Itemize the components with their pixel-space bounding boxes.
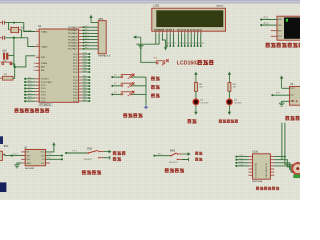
virtual terminal instrument bbox=[277, 16, 301, 40]
svg-text:P1.7: P1.7 bbox=[28, 100, 32, 102]
power VCC arrow (LED D1) bbox=[195, 74, 197, 83]
wire VCC to U2 bbox=[46, 146, 54, 152]
wire K1 to bus bbox=[132, 76, 146, 78]
svg-text:DQ: DQ bbox=[290, 94, 293, 96]
svg-text:P0.0: P0.0 bbox=[85, 26, 89, 28]
svg-text:P0.5: P0.5 bbox=[85, 41, 89, 43]
wire P3.7 to U3 bbox=[272, 94, 274, 96]
pin XTAL1 (19) bbox=[35, 31, 39, 33]
svg-text:XTAL1: XTAL1 bbox=[41, 30, 48, 33]
wire button bus bbox=[145, 77, 147, 105]
node reset junction bbox=[14, 66, 16, 68]
stepper motor bbox=[292, 163, 303, 174]
lcd screen bbox=[157, 11, 223, 27]
svg-text:P1.1/T2EX: P1.1/T2EX bbox=[41, 82, 52, 84]
wire VCC to U3 bbox=[282, 87, 290, 89]
svg-text:SW-SPDT: SW-SPDT bbox=[84, 159, 94, 161]
wire junction down to reset node bbox=[13, 38, 15, 51]
svg-text:P0.6: P0.6 bbox=[85, 44, 89, 46]
wire C3 to reset node bbox=[8, 54, 14, 56]
svg-text:P1.1: P1.1 bbox=[72, 151, 77, 153]
capacitor C1 bbox=[0, 22, 2, 24]
wire P1.2 to SW2 bbox=[154, 155, 156, 157]
svg-text:D6: D6 bbox=[196, 29, 198, 31]
svg-text:P2.3: P2.3 bbox=[240, 165, 244, 167]
net label 温湿度检测 bbox=[285, 116, 289, 120]
wire K2 to bus bbox=[132, 85, 146, 87]
svg-text:LCD1: LCD1 bbox=[153, 5, 160, 8]
wire U2 GND bbox=[17, 163, 21, 165]
svg-text:P2.5: P2.5 bbox=[83, 68, 87, 70]
svg-text:P0.7: P0.7 bbox=[85, 48, 89, 50]
svg-text:P0.2/AD2: P0.2/AD2 bbox=[68, 32, 78, 35]
svg-text:P0.6/AD6: P0.6/AD6 bbox=[68, 45, 78, 48]
power VCC arrow (LED D2) bbox=[228, 74, 230, 83]
led D1 LED-RED bbox=[193, 99, 199, 105]
led D2 LED-RED bbox=[227, 99, 233, 105]
terminal bar 烟雾 bbox=[104, 156, 110, 160]
svg-text:P0: P0 bbox=[167, 43, 169, 45]
svg-text:CLK: CLK bbox=[41, 155, 46, 157]
wire P3.0 to terminal bbox=[260, 24, 262, 26]
svg-text:P2.2: P2.2 bbox=[83, 59, 87, 61]
net label 音乐指示灯 bbox=[219, 119, 222, 122]
uln right pins bbox=[270, 156, 274, 158]
svg-text:P3.5: P3.5 bbox=[73, 95, 78, 97]
wire uln out 2 bbox=[274, 160, 292, 167]
svg-text:P3.2: P3.2 bbox=[83, 85, 87, 87]
svg-text:P1.3: P1.3 bbox=[28, 87, 32, 89]
svg-text:LCD1602: LCD1602 bbox=[177, 61, 199, 67]
svg-text:P1.4: P1.4 bbox=[41, 91, 46, 93]
svg-text:P0.1/AD1: P0.1/AD1 bbox=[68, 29, 78, 32]
pin RST (9) bbox=[36, 56, 40, 58]
svg-text:P2.6: P2.6 bbox=[83, 71, 87, 73]
svg-text:P2.2: P2.2 bbox=[73, 60, 78, 62]
wire VEE with down arrow bbox=[162, 34, 165, 40]
wire vertical feeds bbox=[281, 123, 283, 160]
svg-text:P1.6: P1.6 bbox=[48, 154, 52, 156]
crystal X1 bbox=[11, 27, 19, 32]
wire to XTAL1 bbox=[24, 23, 35, 32]
component fragment (edge) bbox=[0, 136, 3, 144]
ground arrow (D2) bbox=[228, 105, 230, 112]
svg-text:P1.2: P1.2 bbox=[158, 153, 163, 155]
svg-text:P7: P7 bbox=[192, 43, 194, 45]
svg-text:P3: P3 bbox=[179, 43, 181, 45]
junction on crystal net bbox=[13, 37, 15, 39]
svg-text:XTAL2: XTAL2 bbox=[41, 45, 48, 48]
terminal arrow 无烟雾 bbox=[104, 151, 109, 153]
svg-text:P2.4: P2.4 bbox=[83, 65, 87, 67]
svg-text:P1.5: P1.5 bbox=[41, 95, 46, 97]
svg-text:D5: D5 bbox=[193, 29, 195, 31]
terminal arrow 无声 bbox=[182, 153, 188, 155]
svg-text:19: 19 bbox=[36, 30, 38, 32]
svg-text:ULN1: ULN1 bbox=[252, 151, 259, 154]
wire C2 to crystal net bbox=[4, 37, 27, 39]
svg-text:P9: P9 bbox=[198, 43, 200, 45]
net label 独立按键 bbox=[123, 113, 127, 117]
svg-text:P0.0/AD0: P0.0/AD0 bbox=[68, 26, 78, 29]
svg-text:P1.6: P1.6 bbox=[41, 98, 46, 100]
svg-text:P3.7: P3.7 bbox=[73, 101, 78, 103]
svg-text:ADC0832: ADC0832 bbox=[25, 167, 35, 170]
wire P1.1 to SW1 bbox=[65, 152, 67, 154]
net label 声音检测 bbox=[165, 168, 169, 172]
svg-text:P6: P6 bbox=[189, 43, 191, 45]
svg-text:P2.0: P2.0 bbox=[240, 155, 244, 157]
wire uln out 1 bbox=[274, 157, 292, 165]
svg-text:31: 31 bbox=[33, 70, 35, 72]
svg-text:29: 29 bbox=[33, 63, 35, 65]
svg-text:P2.0: P2.0 bbox=[73, 54, 78, 56]
wire RV2 wiper to U2 CH0 bbox=[5, 154, 26, 156]
wire U2 DI bbox=[46, 158, 61, 160]
svg-text:P1.0/T2: P1.0/T2 bbox=[41, 79, 49, 81]
svg-text:P3.4: P3.4 bbox=[73, 92, 78, 94]
svg-text:D1: D1 bbox=[180, 29, 182, 31]
wire crystal right leg bbox=[20, 30, 22, 38]
svg-text:RESPACK-8: RESPACK-8 bbox=[98, 55, 110, 58]
uln left pins bbox=[249, 156, 253, 158]
net label 红灯 bbox=[187, 119, 191, 123]
svg-text:P0.4: P0.4 bbox=[85, 38, 89, 40]
svg-text:P0.2: P0.2 bbox=[85, 32, 89, 34]
svg-text:P1.4: P1.4 bbox=[28, 90, 32, 92]
pins P2.0-P2.7 and P3.0-P3.7 with net stubs bbox=[79, 53, 83, 55]
wire P3.1 to terminal bbox=[260, 19, 262, 21]
svg-text:TXD: TXD bbox=[278, 25, 282, 27]
terminal bar 有声 bbox=[182, 158, 188, 162]
power VCC arrow (U2) bbox=[53, 144, 55, 146]
svg-text:U1: U1 bbox=[38, 24, 42, 28]
svg-text:P2.1: P2.1 bbox=[240, 158, 244, 160]
svg-text:LED-RED: LED-RED bbox=[234, 102, 243, 104]
svg-text:P1.5: P1.5 bbox=[28, 93, 32, 95]
power VCC arrow (U3) bbox=[281, 78, 283, 89]
svg-text:P3.3: P3.3 bbox=[73, 89, 78, 91]
net label 模式 bbox=[151, 93, 155, 97]
svg-text:P2.1: P2.1 bbox=[73, 57, 78, 59]
svg-text:P1.7: P1.7 bbox=[41, 101, 46, 103]
svg-text:2003AULN: 2003AULN bbox=[265, 163, 268, 178]
pin XTAL2 (18) bbox=[35, 46, 39, 48]
svg-text:P0.5/AD5: P0.5/AD5 bbox=[68, 42, 78, 45]
svg-text:ULN2003A: ULN2003A bbox=[252, 180, 263, 183]
adc right pin DO bbox=[46, 162, 50, 164]
wires P2.0-P2.3 to ULN bbox=[236, 156, 238, 158]
wire uln out 3 bbox=[274, 163, 292, 170]
svg-text:P1.2: P1.2 bbox=[41, 85, 46, 87]
svg-text:P2.3: P2.3 bbox=[73, 63, 78, 65]
svg-text:P3.5: P3.5 bbox=[83, 94, 87, 96]
svg-text:ULN2003A: ULN2003A bbox=[255, 163, 258, 178]
push button K1 bbox=[112, 76, 114, 78]
svg-text:D7: D7 bbox=[200, 29, 202, 31]
svg-text:VCC: VCC bbox=[290, 88, 295, 90]
svg-text:P5: P5 bbox=[185, 43, 187, 45]
svg-text:P2.4: P2.4 bbox=[73, 66, 78, 68]
svg-text:P2.6: P2.6 bbox=[73, 72, 78, 74]
adc left pins bbox=[21, 151, 25, 153]
svg-text:PSEN: PSEN bbox=[41, 63, 47, 65]
svg-text:P2: P2 bbox=[174, 43, 176, 45]
wire VSS/VDD to left rail bbox=[155, 34, 157, 44]
wire R1 to reset node bbox=[13, 67, 15, 78]
svg-text:P0.3: P0.3 bbox=[85, 35, 89, 37]
wire uln out 4 bbox=[274, 166, 292, 172]
wire R2 to D1 bbox=[195, 91, 197, 99]
wire U2 CLK bbox=[46, 155, 61, 157]
power arrow left bbox=[133, 35, 136, 38]
svg-text:P4: P4 bbox=[182, 43, 184, 45]
capacitor C2 bbox=[0, 37, 2, 39]
ground arrow (D1) bbox=[195, 105, 197, 112]
wire crystal left leg bbox=[8, 23, 10, 30]
svg-text:P0.1: P0.1 bbox=[85, 29, 89, 31]
push button reset bbox=[1, 61, 13, 63]
svg-text:P3.3: P3.3 bbox=[83, 88, 87, 90]
wire button to reset node bbox=[12, 64, 15, 67]
ground (lcd) bbox=[138, 45, 144, 48]
svg-text:P3.0: P3.0 bbox=[264, 23, 269, 25]
svg-text:P1.2: P1.2 bbox=[28, 84, 32, 86]
svg-text:P3.6: P3.6 bbox=[83, 97, 87, 99]
svg-text:P3.6: P3.6 bbox=[73, 98, 78, 100]
svg-text:30: 30 bbox=[33, 67, 35, 69]
lcd data pin net stubs bbox=[166, 34, 168, 46]
net label 四相步进电机 bbox=[256, 187, 259, 190]
svg-text:P2.2: P2.2 bbox=[240, 161, 244, 163]
terminal screen bbox=[284, 17, 300, 38]
svg-text:ALE: ALE bbox=[41, 66, 46, 69]
wire to XTAL2 bbox=[28, 38, 35, 47]
resistor R2 bbox=[194, 83, 197, 92]
ground (U2) bbox=[14, 165, 20, 168]
svg-text:P2.0: P2.0 bbox=[83, 53, 87, 55]
svg-text:RV2: RV2 bbox=[4, 146, 9, 148]
svg-text:P0.7/AD7: P0.7/AD7 bbox=[68, 48, 78, 51]
svg-text:VCC: VCC bbox=[40, 152, 45, 154]
svg-text:P3.1: P3.1 bbox=[83, 82, 87, 84]
svg-text:D4: D4 bbox=[190, 28, 192, 31]
push button K2 bbox=[112, 85, 114, 87]
svg-text:P3.7: P3.7 bbox=[276, 93, 281, 95]
svg-text:P8: P8 bbox=[195, 43, 197, 45]
svg-text:P2.3: P2.3 bbox=[83, 62, 87, 64]
net label 烟雾检测 bbox=[82, 170, 86, 174]
svg-text:D2: D2 bbox=[184, 29, 186, 31]
window top band bbox=[0, 0, 300, 1]
ground (U3) bbox=[279, 103, 285, 106]
capacitor C3 bbox=[3, 49, 7, 52]
resistor R3 bbox=[228, 83, 231, 92]
svg-text:RST: RST bbox=[41, 57, 46, 59]
svg-text:18: 18 bbox=[36, 45, 38, 47]
svg-text:P3.0: P3.0 bbox=[73, 80, 78, 82]
svg-text:P0.3/AD3: P0.3/AD3 bbox=[68, 35, 78, 38]
svg-text:DO: DO bbox=[42, 163, 45, 165]
svg-text:P0.4/AD4: P0.4/AD4 bbox=[68, 38, 78, 41]
wire reset node to RST pin bbox=[15, 56, 36, 67]
wire VCC to RP1 bbox=[91, 22, 98, 24]
power VCC arrow (RP1) bbox=[90, 17, 92, 23]
svg-text:P1.1: P1.1 bbox=[28, 81, 32, 83]
background sheet bbox=[0, 0, 300, 200]
svg-text:LED-RED: LED-RED bbox=[201, 102, 210, 104]
svg-text:P1.0: P1.0 bbox=[28, 77, 32, 79]
component fragment (edge) bbox=[0, 182, 6, 192]
wire U3 ground bbox=[282, 101, 290, 103]
motor angle display bbox=[294, 175, 301, 178]
wire R3 to D2 bbox=[228, 91, 230, 99]
svg-text:P2.7: P2.7 bbox=[73, 77, 78, 79]
svg-text:P3.4: P3.4 bbox=[83, 91, 87, 93]
wire C1 to crystal net bbox=[4, 22, 23, 24]
svg-text:9: 9 bbox=[37, 55, 38, 57]
svg-text:P3.7: P3.7 bbox=[83, 100, 87, 102]
svg-text:P3.1: P3.1 bbox=[73, 83, 78, 85]
svg-text:P1: P1 bbox=[171, 43, 173, 45]
svg-text:P1.7: P1.7 bbox=[48, 157, 52, 159]
svg-text:RW: RW bbox=[169, 29, 172, 31]
junction marker bbox=[144, 105, 148, 109]
svg-text:P3.1: P3.1 bbox=[264, 18, 269, 20]
pins PSEN ALE EA bbox=[35, 62, 39, 64]
net label 串口接口（模拟手 bbox=[265, 43, 270, 48]
svg-text:P3.0: P3.0 bbox=[83, 79, 87, 81]
value label STC89C52 bbox=[39, 103, 52, 106]
wire K3 to bus bbox=[132, 93, 146, 95]
svg-text:P1.3: P1.3 bbox=[41, 88, 46, 90]
svg-text:SW-SPDT: SW-SPDT bbox=[169, 162, 179, 164]
svg-text:P1.6: P1.6 bbox=[28, 97, 32, 99]
svg-text:P10: P10 bbox=[201, 43, 204, 45]
net label 音乐 bbox=[151, 76, 155, 80]
push button K3 bbox=[112, 94, 114, 96]
svg-text:D3: D3 bbox=[187, 29, 189, 31]
svg-text:LM016L: LM016L bbox=[216, 6, 224, 8]
svg-text:STC89C52: STC89C52 bbox=[39, 105, 51, 107]
svg-text:P2.1: P2.1 bbox=[83, 56, 87, 58]
svg-text:SW1: SW1 bbox=[87, 147, 93, 150]
pins P1.0-P1.7 with net stubs bbox=[35, 78, 39, 80]
wire LCD rail down to K4 bbox=[141, 44, 156, 62]
svg-text:GND: GND bbox=[26, 163, 31, 165]
svg-text:RXD: RXD bbox=[278, 19, 283, 21]
svg-text:SW2: SW2 bbox=[170, 149, 176, 152]
net label 单片机最小系统 bbox=[14, 108, 18, 112]
net label 闹钟 bbox=[151, 85, 155, 89]
pins P0.0-P0.7 wired to RP1 bbox=[79, 26, 83, 28]
svg-text:P2.5: P2.5 bbox=[73, 69, 78, 71]
terminal pins RTS CTS bbox=[271, 30, 277, 32]
svg-text:P2.7: P2.7 bbox=[83, 76, 87, 78]
lcd pins bbox=[155, 31, 157, 34]
svg-text:P3.2: P3.2 bbox=[73, 86, 78, 88]
svg-text:D0: D0 bbox=[177, 29, 179, 31]
